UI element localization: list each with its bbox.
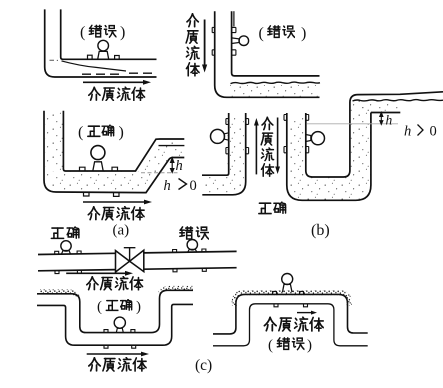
feed pipe bottom wall + riser right wall (outer sweep) xyxy=(202,113,245,195)
stipple fill (b top) horizontal pipe below liquid line xyxy=(228,85,319,96)
svg-text:): ) xyxy=(136,299,141,315)
label 正确 (c top) xyxy=(51,227,78,239)
label 介质流体 (c dip) xyxy=(89,358,146,372)
granular band along hump top xyxy=(234,293,349,306)
svg-text:h: h xyxy=(386,113,393,128)
svg-text:h: h xyxy=(164,178,171,194)
U-tube leg flange pair top xyxy=(284,115,309,121)
svg-text:): ) xyxy=(120,24,125,41)
granular band upper-left pipe xyxy=(40,292,78,297)
meter body right (c top) xyxy=(187,240,197,250)
label (正确) c-dip xyxy=(97,299,141,315)
(b top) meter body xyxy=(239,36,249,46)
flange tabs hump bottom wall xyxy=(274,304,308,307)
(b top) pipe outer wall with elbow xyxy=(215,11,320,97)
meter body (U-tube) xyxy=(311,132,324,145)
upper-left pipe bottom wall + descent left wall xyxy=(37,304,193,345)
flow arrow (a bottom) xyxy=(83,200,152,205)
down flow arrow (b bottom) xyxy=(275,118,280,175)
feed pipe top wall + riser left wall xyxy=(202,113,229,175)
stipple fill outlet channel xyxy=(352,102,400,112)
vertical pipe outer wall + outer elbow xyxy=(44,111,184,193)
meter body (c dip) xyxy=(114,317,125,328)
upper pipe liquid level line xyxy=(159,145,185,147)
meter stem (c dip) xyxy=(116,328,123,332)
label 正确 (b bottom) xyxy=(259,202,286,214)
label (错误) b-top xyxy=(259,25,307,42)
label 介质流体 (c top) xyxy=(87,277,143,290)
flange bumps bottom wall (c top) xyxy=(55,268,206,273)
flange block left xyxy=(88,55,93,59)
(b top) liquid wavy surface xyxy=(231,82,321,84)
flange bumps lower pipe top (c dip) xyxy=(104,330,135,333)
flow meter body xyxy=(98,40,109,51)
flow meter stem xyxy=(98,51,109,59)
h dimension arrow xyxy=(170,158,174,173)
flange bumps lower pipe bottom (c dip) xyxy=(104,345,136,348)
upper-left pipe top wall + descent right wall xyxy=(37,290,193,332)
liquid surface sloping line xyxy=(62,61,127,71)
svg-text:(c): (c) xyxy=(195,357,212,374)
vertical label 介质流体 (b bottom) xyxy=(261,117,274,176)
(b top) flange lower pair xyxy=(212,50,236,55)
meter stem (b bottom-left) xyxy=(224,133,228,140)
outlet wavy liquid surface xyxy=(353,100,443,101)
stipple fill feed pipe and riser xyxy=(203,116,244,194)
label 介质流体 (c hump) xyxy=(264,317,323,331)
up flow arrow xyxy=(254,118,259,174)
label 介质流体 (a bottom) xyxy=(88,207,144,220)
flange bump bottom-right xyxy=(114,193,120,197)
flange bump bottom-left xyxy=(84,192,90,196)
valve stem and handle xyxy=(124,248,136,261)
svg-text:(a): (a) xyxy=(113,223,130,239)
flow arrow (c top) xyxy=(66,271,133,276)
label (正确) a-bottom xyxy=(78,124,124,141)
meter body left (c top) xyxy=(61,241,71,251)
svg-text:(b): (b) xyxy=(311,222,330,239)
riser flange pair lower xyxy=(226,148,249,154)
svg-text:(: ( xyxy=(97,299,102,315)
centerline tick at corner xyxy=(50,59,59,61)
meter body (a bottom) xyxy=(91,146,105,160)
flange bump top-right xyxy=(112,167,118,171)
meter stem (c hump) xyxy=(283,284,293,292)
U-tube left leg outer wall + outer bottom xyxy=(287,113,371,201)
down flow arrow (b top) xyxy=(202,20,207,73)
svg-text:(: ( xyxy=(268,338,273,354)
U-tube leg flange pair mid xyxy=(284,147,309,153)
flange block right xyxy=(115,56,120,60)
stipple fill vertical pipe xyxy=(46,112,63,171)
svg-text:(: ( xyxy=(78,124,83,141)
vertical pipe inner wall + inner corner xyxy=(63,111,184,171)
pipe elbow inner wall xyxy=(61,9,157,59)
small flow arrow above 体 xyxy=(297,311,317,315)
top wall right segment xyxy=(144,251,237,253)
meter stem (a bottom) xyxy=(93,162,103,171)
flow arrow (a top) xyxy=(83,80,151,85)
pipe elbow outer wall xyxy=(45,9,157,77)
stipple fill horizontal pipe xyxy=(46,172,140,192)
level reference thin line xyxy=(307,123,398,125)
(b top) flange upper pair xyxy=(212,27,236,32)
granular band upper-right pipe xyxy=(160,288,193,294)
(b top) pipe inner wall with corner xyxy=(232,11,320,76)
top wall left segment xyxy=(38,253,116,254)
U-tube left leg inner wall + inner bottom + right inner wall xyxy=(306,92,443,177)
vertical label 介质流体 (b top) xyxy=(186,14,199,76)
(b top) meter stem xyxy=(232,38,240,44)
label (错误) a-top xyxy=(80,24,125,41)
svg-text:): ) xyxy=(307,338,312,354)
hump entry top wall + left riser left wall + hump top wall + right riser right wall + exit top wall xyxy=(213,294,368,334)
meter stem left (c top) xyxy=(62,251,71,255)
valve body left triangle xyxy=(116,251,130,272)
svg-text:(: ( xyxy=(259,25,264,42)
flow arrow (c dip) xyxy=(87,352,149,357)
flange tabs hump top wall xyxy=(273,291,304,294)
stipple fill diagonal and upper pipe xyxy=(140,142,183,191)
label (错误) c-hump xyxy=(268,338,312,354)
meter stem right (c top) xyxy=(188,249,197,252)
label 介质流体 (a top) xyxy=(89,87,145,100)
h dimension extension dashed line xyxy=(141,172,178,174)
svg-text:): ) xyxy=(119,124,124,141)
valve body right triangle xyxy=(130,250,144,271)
stipple fill U-tube xyxy=(288,101,372,200)
outlet lip bottom wall xyxy=(371,112,400,114)
flange bumps top wall (c top) xyxy=(55,249,206,254)
svg-text:0: 0 xyxy=(430,124,437,140)
svg-text:): ) xyxy=(301,25,306,42)
bottom wall right segment xyxy=(144,268,237,270)
label 错误 (c top) xyxy=(180,227,209,239)
flange bump top-left xyxy=(80,167,86,171)
meter body (c hump) xyxy=(282,274,293,285)
riser flange pair upper xyxy=(226,119,249,125)
svg-text:0: 0 xyxy=(190,178,197,194)
svg-text:h: h xyxy=(176,158,183,174)
svg-text:(: ( xyxy=(80,24,85,41)
meter stem (U-tube) xyxy=(306,135,311,142)
liquid surface dashed run xyxy=(82,73,154,74)
(b top) doubled flange line xyxy=(233,11,235,26)
bottom wall left segment xyxy=(38,270,116,271)
svg-text:h: h xyxy=(404,124,411,140)
meter body (b bottom-left) xyxy=(211,129,225,143)
hump entry bottom wall + left riser right wall (inner) xyxy=(213,304,368,346)
h dimension arrow (b) xyxy=(380,112,383,124)
